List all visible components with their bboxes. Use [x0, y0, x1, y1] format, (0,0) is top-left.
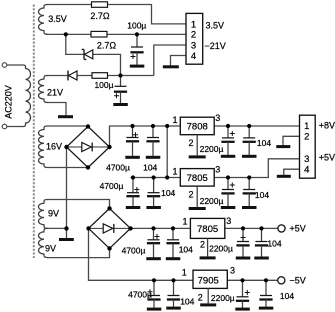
resistor 2.7ohm top — [92, 2, 108, 8]
capacitor 104 at -5V output (x=266) — [259, 280, 274, 309]
wire: primary terminal bottom — [7, 126, 23, 128]
wire: 7805 input/output rail and jog up to J2 pin3 — [131, 159, 300, 178]
label 104 -5V output — [280, 291, 294, 301]
svg-text:2: 2 — [191, 30, 196, 41]
label 7805b pin 3 — [226, 216, 231, 226]
svg-text:4: 4 — [191, 51, 196, 62]
wire: 21V winding return to ground — [47, 103, 67, 116]
node bridge B1 top — [86, 124, 90, 128]
label 3.5V output — [206, 20, 225, 30]
capacitor 104 at +5V output (x=261.5) — [254, 228, 268, 259]
svg-text:7905: 7905 — [198, 275, 219, 286]
svg-text:4700µ: 4700µ — [128, 289, 152, 299]
svg-text:−5V: −5V — [290, 275, 306, 285]
svg-text:4700µ: 4700µ — [122, 245, 146, 255]
node +DC rail at 104 — [151, 124, 155, 128]
capacitor 4700u on -5V rail (x=154) — [147, 280, 162, 310]
capacitor 104 at 7808 output (x=249.2) — [242, 126, 257, 158]
primary terminal circle bottom — [2, 124, 7, 129]
capacitor 104 on +5V rail (x=173) — [166, 228, 181, 260]
capacitor 104 on 7805 input rail (x=153.6) — [146, 178, 161, 210]
label 104 +5V rail — [179, 245, 193, 255]
connector J2 — [300, 115, 316, 178]
node 7805 input at 4700u — [131, 175, 135, 179]
label 2200u 7805 — [200, 196, 224, 206]
svg-text:9V: 9V — [48, 208, 59, 218]
svg-text:104: 104 — [179, 245, 193, 255]
svg-text:2: 2 — [304, 132, 309, 143]
capacitor 104 at 7805 output (x=249.2) — [242, 178, 257, 210]
capacitor 100u second (x=120.5) — [113, 76, 128, 107]
label 9V upper winding — [48, 208, 59, 218]
svg-text:16V: 16V — [46, 142, 62, 152]
node bridge B1 left — [64, 145, 68, 149]
wire: 9V center tap to ground node — [46, 228, 67, 238]
node 7805 input at 104 — [152, 175, 156, 179]
node +5V rail at 4700u — [151, 226, 155, 230]
label J1 pin 3 — [191, 40, 196, 51]
connector J1 — [186, 13, 203, 64]
label -21V output — [205, 41, 226, 51]
label 2.7 ohm top — [90, 11, 110, 21]
label J2 pin 3 — [304, 154, 309, 165]
wire: zener branch from node A down and right to node B — [66, 34, 121, 75]
svg-text:AC220V: AC220V — [3, 85, 13, 119]
svg-text:1: 1 — [304, 121, 309, 132]
ground: J1 pin4 — [163, 65, 179, 68]
label +5V terminal — [290, 224, 306, 234]
node 7805 output at 104 — [247, 175, 251, 179]
svg-text:100µ: 100µ — [127, 21, 146, 31]
svg-text:100µ: 100µ — [94, 80, 113, 90]
svg-text:104: 104 — [255, 190, 269, 200]
node 7805 input at link — [165, 175, 169, 179]
resistor on 21V rail — [92, 73, 108, 79]
capacitor 2200u at +5V output (x=243) — [236, 228, 251, 259]
capacitor 4700u on +DC rail (x=132.5) — [125, 126, 140, 159]
transformer core — [33, 5, 35, 259]
svg-text:9V: 9V — [45, 243, 56, 253]
label 16V winding — [46, 142, 62, 152]
ground: 21V winding return — [58, 115, 73, 118]
svg-text:104: 104 — [161, 188, 175, 198]
svg-text:3: 3 — [191, 40, 196, 51]
label 100u second — [94, 80, 113, 90]
label 3.5V winding — [48, 14, 67, 24]
svg-text:104: 104 — [257, 138, 271, 148]
svg-text:+5V: +5V — [290, 224, 306, 234]
wire: primary terminal top — [7, 64, 23, 66]
label 104 -5V rail — [180, 297, 194, 307]
node +DC rail at link — [165, 124, 169, 128]
svg-text:3.5V: 3.5V — [206, 20, 225, 30]
label 104 +5V output — [267, 239, 281, 249]
label 7805 — [187, 173, 208, 184]
label 7805b — [197, 224, 218, 235]
node +5V output at 104 — [259, 226, 263, 230]
diode on 21V rail — [68, 71, 77, 81]
wire: vertical link +DC rail to 7805 input rail — [166, 126, 168, 178]
label 7805 pin 1 — [172, 166, 177, 176]
svg-text:2: 2 — [200, 239, 205, 249]
svg-text:4: 4 — [304, 165, 309, 176]
svg-text:2200µ: 2200µ — [200, 196, 224, 206]
svg-text:2.7Ω: 2.7Ω — [97, 40, 117, 50]
capacitor 2200u at 7805 output (x=228) — [221, 178, 236, 210]
svg-text:+5V: +5V — [319, 152, 335, 162]
wire: 9V upper winding top to bridge B2 top corner — [47, 200, 110, 209]
wire: 21V rail — [47, 75, 154, 77]
wire: 21V rail up-jog to connector pin3 — [154, 45, 186, 76]
svg-text:7805: 7805 — [187, 173, 208, 184]
svg-text:2200µ: 2200µ — [209, 243, 233, 253]
regulator U2 7805 — [180, 169, 214, 210]
svg-text:21V: 21V — [47, 87, 63, 97]
svg-text:104: 104 — [180, 297, 194, 307]
svg-text:104: 104 — [267, 239, 281, 249]
label 4700u 7805 input — [100, 181, 124, 191]
svg-text:+8V: +8V — [319, 121, 335, 131]
wire: 3.5V top rail to connector pin1 — [47, 5, 186, 24]
capacitor 104 on -5V rail (x=173.5) — [166, 280, 181, 309]
node 7805 output at 2200u — [226, 175, 230, 179]
node -5V output at 104 — [264, 278, 268, 282]
svg-text:4700µ: 4700µ — [106, 162, 130, 172]
label J2 pin 2 — [304, 132, 309, 143]
wire: J2 pin4 to ground — [284, 169, 300, 175]
node +5V rail at 104 — [171, 226, 175, 230]
resistor 2.7ohm second — [91, 31, 107, 37]
wire: bridge B2 left corner down, -5V rail to 7905 and output terminal — [89, 228, 278, 280]
label 7905 pin 3 — [230, 266, 235, 276]
bridge rectifier B2 — [89, 208, 131, 248]
wire: bridge B2 right corner, +5V rail to 7805 and output terminal — [131, 227, 278, 229]
node bridge B2 right — [128, 226, 132, 230]
wire: 9V lower winding bottom to bridge B2 bottom corner — [47, 248, 110, 257]
label AC220V primary — [3, 85, 13, 119]
wire: connector J1 pin4 to ground — [171, 56, 187, 66]
node -5V output at 2200u — [240, 278, 244, 282]
terminal -5V — [278, 277, 285, 284]
label 104 7805 input — [161, 188, 175, 198]
transformer primary winding — [23, 65, 31, 127]
node bridge B2 top — [107, 206, 111, 210]
node -5V rail at 4700u — [152, 278, 156, 282]
wire: 16V winding top to bridge top corner — [48, 125, 89, 127]
secondary winding 9V upper — [38, 200, 47, 229]
label 7905 pin 2 — [198, 292, 203, 302]
terminal +5V — [278, 225, 285, 232]
svg-text:2: 2 — [188, 190, 193, 200]
svg-text:2200µ: 2200µ — [200, 144, 224, 154]
wire: 3.5V bottom rail to connector pin2 — [46, 33, 186, 35]
label 104 7805 output — [255, 190, 269, 200]
svg-text:2.7Ω: 2.7Ω — [90, 11, 110, 21]
label 2200u 7905 — [211, 293, 235, 303]
zener diode on branch — [82, 49, 93, 59]
regulator U4 7905 — [193, 270, 227, 306]
capacitor 4700u on +5V rail (x=153.5) — [146, 228, 161, 260]
label J2 pin 4 — [304, 165, 309, 176]
label 7808 pin 1 — [172, 115, 177, 125]
svg-text:1: 1 — [172, 166, 177, 176]
capacitor 2200u at -5V output (x=242.5) — [235, 280, 250, 310]
svg-text:2: 2 — [188, 138, 193, 148]
label 104 7808 output — [257, 138, 271, 148]
node +DC rail at 4700u — [130, 124, 134, 128]
label J1 pin 4 — [191, 51, 196, 62]
label 2200u 7805b — [209, 243, 233, 253]
capacitor 104 on +DC rail (x=153) — [146, 126, 161, 159]
label 7805b pin 2 — [200, 239, 205, 249]
node 7808 output at 104 — [247, 124, 251, 128]
primary terminal circle top — [2, 63, 7, 68]
svg-text:1: 1 — [172, 115, 177, 125]
secondary winding 9V lower — [38, 228, 47, 257]
node A junction 3.5V rail — [64, 32, 68, 36]
secondary winding 16V — [39, 126, 48, 168]
secondary winding 3.5V — [39, 5, 48, 35]
svg-text:1: 1 — [182, 217, 187, 227]
label 7805 pin 3 — [215, 165, 220, 175]
label 7808 pin 3 — [215, 113, 220, 123]
label 21V winding — [47, 87, 63, 97]
label +8V output — [319, 121, 335, 131]
svg-text:3: 3 — [230, 266, 235, 276]
label 104 +DC rail — [143, 162, 157, 172]
svg-text:104: 104 — [280, 291, 294, 301]
label 9V lower winding — [45, 243, 56, 253]
bridge rectifier B1 — [67, 127, 110, 168]
label J1 pin 2 — [191, 30, 196, 41]
label +5V output J2 — [319, 152, 335, 162]
label -5V terminal — [290, 275, 306, 285]
svg-text:7805: 7805 — [197, 224, 218, 235]
label 100u first — [127, 21, 146, 31]
label 4700u +5V rail — [122, 245, 146, 255]
svg-text:7808: 7808 — [187, 121, 208, 132]
label 7805 pin 2 — [188, 190, 193, 200]
wire: bridge B1 right corner up and +DC rail to J2 pin1 — [110, 126, 300, 147]
svg-text:104: 104 — [143, 162, 157, 172]
node bridge B1 bottom — [86, 165, 90, 169]
capacitor 4700u on 7805 input rail (x=133) — [126, 178, 141, 210]
label 4700u +DC rail — [106, 162, 130, 172]
svg-text:3.5V: 3.5V — [48, 14, 67, 24]
label 2200u 7808 — [200, 144, 224, 154]
node -5V rail at 104 — [171, 278, 175, 282]
node center tap ground — [64, 226, 68, 230]
node 7808 output at 2200u — [226, 124, 230, 128]
node bridge B1 right — [107, 145, 111, 149]
wire: bridge B1 left corner down to ground node — [66, 147, 68, 228]
secondary winding 21V — [38, 76, 47, 103]
wire: J2 pin2 to ground — [283, 136, 300, 145]
svg-text:3: 3 — [304, 154, 309, 165]
label J2 pin 1 — [304, 121, 309, 132]
label 2.7 ohm second — [97, 40, 117, 50]
node +5V output at 2200u — [241, 226, 245, 230]
svg-text:2: 2 — [198, 292, 203, 302]
svg-text:−21V: −21V — [205, 41, 226, 51]
label J1 pin 1 — [191, 19, 196, 30]
node bridge B2 bottom — [107, 246, 111, 250]
label 7808 — [187, 121, 208, 132]
capacitor 100u first (x=137) — [130, 34, 145, 67]
svg-text:2200µ: 2200µ — [211, 293, 235, 303]
label 7808 pin 2 — [188, 138, 193, 148]
label 7905 pin 1 — [182, 267, 187, 277]
label 4700u -5V rail — [128, 289, 152, 299]
svg-text:4700µ: 4700µ — [100, 181, 124, 191]
node B junction 21V rail — [118, 73, 122, 77]
capacitor 2200u at 7808 output (x=228) — [221, 126, 236, 158]
node bridge B2 left — [86, 226, 90, 230]
svg-text:1: 1 — [182, 267, 187, 277]
svg-text:3: 3 — [215, 113, 220, 123]
label 7805b pin 1 — [182, 217, 187, 227]
wire: 16V winding bottom to bridge bottom corner — [48, 167, 89, 169]
ground: J2 pin4 — [277, 175, 291, 178]
node junction 100u cap — [135, 32, 139, 36]
regulator U1 7808 — [180, 117, 214, 158]
regulator U3 7805 — [190, 218, 224, 259]
ground: center tap — [59, 238, 74, 241]
svg-text:3: 3 — [215, 165, 220, 175]
ground: J2 pin2 — [276, 145, 290, 148]
svg-text:3: 3 — [226, 216, 231, 226]
label 7905 — [198, 275, 219, 286]
